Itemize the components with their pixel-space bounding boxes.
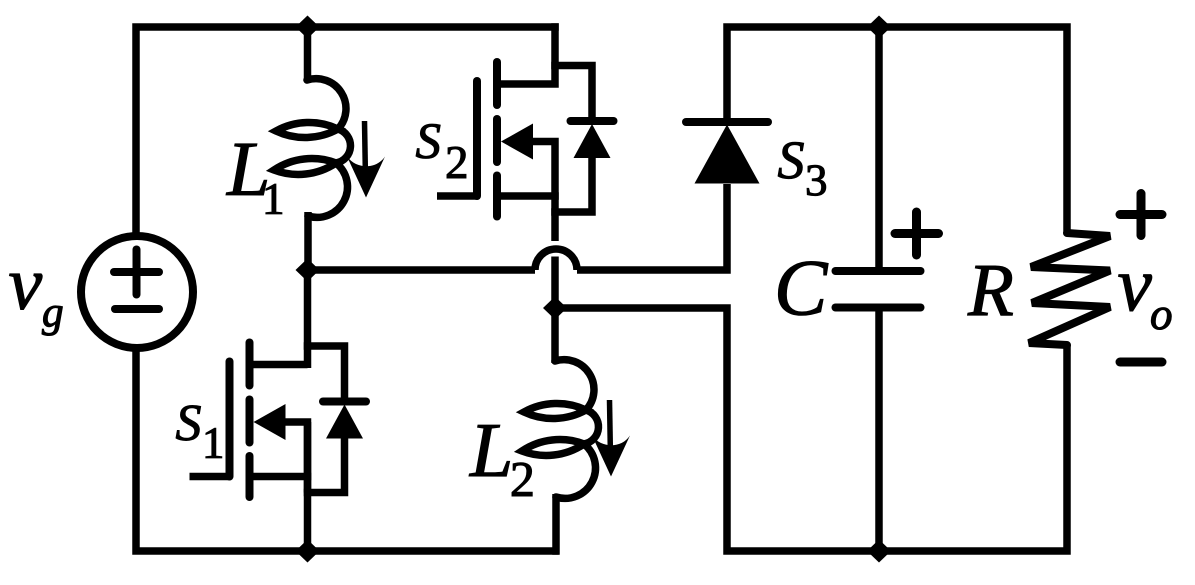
svg-text:2: 2 [445, 137, 469, 189]
svg-text:o: o [1150, 289, 1173, 339]
svg-text:S: S [175, 395, 201, 452]
svg-text:v: v [1117, 241, 1152, 327]
svg-text:v: v [8, 242, 42, 326]
svg-text:1: 1 [202, 418, 224, 468]
svg-text:1: 1 [262, 174, 285, 224]
svg-text:S: S [778, 130, 805, 190]
svg-text:L: L [469, 407, 513, 493]
svg-text:R: R [967, 249, 1014, 332]
svg-text:S: S [416, 114, 441, 170]
svg-text:3: 3 [805, 155, 828, 205]
svg-text:2: 2 [510, 451, 535, 507]
svg-text:C: C [774, 245, 829, 333]
svg-text:g: g [42, 288, 64, 336]
